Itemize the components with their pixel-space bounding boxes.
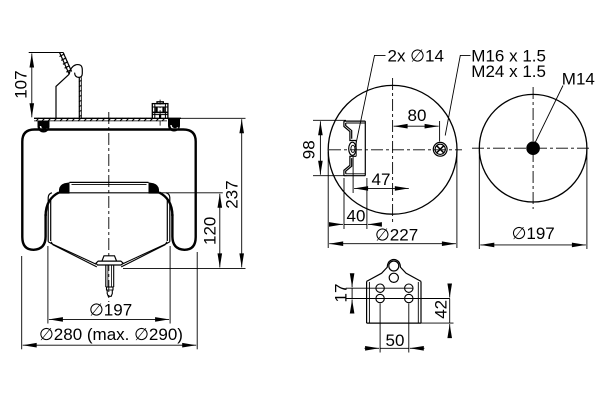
svg-text:M24 x 1.5: M24 x 1.5 — [471, 62, 546, 81]
dim phi197 (right view) — [478, 150, 480, 249]
svg-text:42: 42 — [432, 300, 451, 319]
dim 40 — [343, 178, 345, 229]
horizontal centre line — [329, 149, 462, 151]
svg-text:80: 80 — [408, 106, 427, 125]
bellows outline — [22, 130, 195, 250]
boss ellipse — [349, 142, 356, 155]
top plate (hatched) — [34, 118, 181, 121]
fitting centre line — [159, 100, 161, 127]
horizontal centre line — [472, 147, 592, 149]
svg-text:98: 98 — [300, 140, 319, 159]
svg-text:237: 237 — [223, 180, 242, 208]
dim phi280 — [21, 256, 23, 349]
bracket right edge hatch — [79, 80, 82, 117]
svg-text:2x ∅14: 2x ∅14 — [388, 46, 444, 65]
vertical centre line — [392, 78, 394, 225]
bracket body — [367, 260, 421, 324]
piston top plate — [58, 182, 162, 192]
bolt shaft — [106, 265, 114, 296]
arm hatch ticks — [60, 54, 72, 72]
svg-text:M14: M14 — [562, 70, 595, 89]
top circle small — [389, 261, 399, 271]
svg-text:47: 47 — [372, 170, 391, 189]
svg-text:∅197: ∅197 — [89, 301, 132, 320]
bracket profile (top view) — [344, 121, 365, 176]
dim 120 extension top — [162, 192, 223, 194]
dim phi227 — [327, 152, 329, 248]
svg-text:17: 17 — [332, 284, 351, 303]
bellows top and left side and left lobe — [22, 130, 50, 250]
dims 120/237 extension bottom — [123, 267, 246, 269]
bellows top right and right lobe — [168, 130, 196, 250]
bolt hole symbol — [433, 142, 447, 156]
dim 237 extension top — [167, 117, 246, 119]
dim 50 — [379, 304, 381, 353]
hub flange — [96, 261, 123, 265]
piston bead horn right — [149, 182, 160, 193]
body left edge — [56, 74, 69, 118]
piston bead horn left — [59, 182, 70, 193]
dim 17 — [351, 288, 353, 298]
mounting bracket (side view) arm — [56, 53, 82, 119]
leader M16 — [445, 55, 470, 135]
bellows top edge middle — [50, 128, 168, 130]
hole row lines — [346, 287, 414, 289]
circle 197 — [479, 94, 587, 202]
4 holes — [376, 284, 413, 303]
vertical centre line — [532, 87, 534, 209]
centre line of side view — [108, 112, 110, 302]
piston bottom cone — [48, 242, 170, 267]
hook curl — [69, 65, 82, 78]
air fitting block on top plate — [152, 102, 168, 119]
dim 107 — [29, 52, 64, 54]
svg-text:107: 107 — [12, 70, 31, 98]
bellows over piston corner left — [46, 192, 59, 216]
dim 98 — [313, 119, 346, 121]
second circle — [389, 273, 398, 282]
left crimp bead — [38, 121, 50, 133]
hub square stem — [102, 256, 117, 261]
top profile — [367, 260, 421, 282]
leader 2x phi14 — [355, 55, 385, 147]
dim 80 — [439, 121, 441, 142]
circle 227 — [328, 85, 457, 214]
dim phi197 (side view) — [47, 246, 49, 324]
svg-text:∅197: ∅197 — [512, 224, 555, 243]
piston cup walls — [48, 193, 170, 242]
leader M14 — [535, 86, 563, 144]
dim 47 — [352, 157, 354, 193]
dim 42 — [421, 322, 454, 324]
dim 237 — [241, 119, 243, 267]
top plate hatch ticks — [36, 118, 165, 121]
svg-text:∅280 (max. ∅290): ∅280 (max. ∅290) — [39, 325, 183, 344]
M14 centre dot — [526, 141, 540, 155]
body right edge (section) — [78, 77, 80, 118]
svg-text:40: 40 — [347, 207, 366, 226]
right crimp bead — [168, 119, 180, 132]
svg-text:120: 120 — [201, 217, 220, 245]
dim 120 — [219, 194, 221, 268]
svg-text:∅227: ∅227 — [375, 226, 418, 245]
svg-text:50: 50 — [386, 331, 405, 350]
